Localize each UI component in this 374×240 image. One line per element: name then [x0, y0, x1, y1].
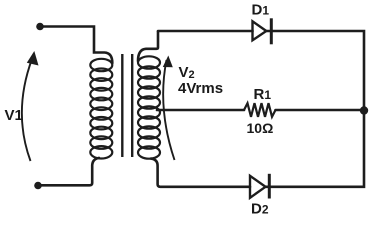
svg-text:V1: V1	[5, 107, 23, 124]
svg-text:D1: D1	[252, 1, 270, 18]
svg-text:10Ω: 10Ω	[247, 120, 274, 136]
svg-text:D2: D2	[251, 201, 269, 218]
svg-text:4Vrms: 4Vrms	[178, 80, 223, 97]
svg-text:R1: R1	[254, 86, 272, 103]
